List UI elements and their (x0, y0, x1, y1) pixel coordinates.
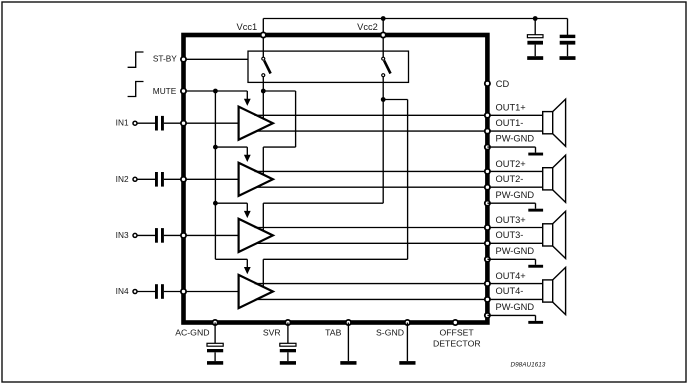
wire S2 output (382, 77, 384, 100)
speaker LS1 (543, 112, 553, 134)
junction S1 output node (261, 89, 266, 94)
wire OUT3+ (255, 227, 543, 229)
wire OUT1+ (255, 114, 543, 116)
terminal IN1 input (133, 121, 137, 125)
junction mute bus ch3 (213, 201, 218, 206)
IC block outline (184, 35, 488, 323)
svg-text:MUTE: MUTE (153, 86, 177, 96)
terminal IN4 input (133, 290, 137, 294)
terminal OUT1- (485, 129, 490, 134)
wire OUT3- (257, 242, 542, 244)
svg-text:OUT4+: OUT4+ (496, 271, 526, 281)
svg-text:D98AU1613: D98AU1613 (511, 361, 546, 368)
capacitor coupling C IN3 (155, 228, 158, 243)
ground PW-GND ch4 (528, 321, 543, 324)
wire OUT1- (257, 130, 542, 132)
mute arrow ch1 (246, 91, 248, 100)
wire IN2 to amplifier (164, 178, 239, 180)
ground TAB (340, 361, 356, 365)
wire Vcc1 to switch S1 (262, 35, 264, 57)
wire Vcc2 riser (382, 19, 384, 36)
ground AC-GND (207, 361, 223, 365)
switch S2 (384, 61, 390, 74)
terminal OUT2+ (485, 169, 490, 174)
control block box (248, 51, 409, 82)
op-amp A4 power amplifier channel 4 (239, 275, 273, 308)
terminal ST-BY (181, 57, 186, 62)
wire OUT2- (257, 186, 542, 188)
wire bias line ch3 (215, 202, 247, 204)
op-amp A1 power amplifier channel 1 (239, 107, 273, 140)
wire PW-GND ch1 (487, 146, 535, 148)
svg-text:TAB: TAB (325, 327, 341, 337)
terminal MUTE (181, 88, 186, 93)
terminal TAB (346, 320, 351, 325)
speaker LS4 (543, 280, 553, 302)
terminal OFFSET (453, 320, 458, 325)
op-amp A3 power amplifier channel 3 (239, 219, 273, 252)
wire IN3 to coupling cap (137, 234, 155, 236)
wire PW-GND ch2 (487, 202, 535, 204)
speaker LS2 (543, 168, 553, 190)
wire OUT2+ (255, 170, 543, 172)
wire IN2 to coupling cap (137, 178, 155, 180)
terminal OUT4- (485, 297, 490, 302)
wire C2 stub (567, 19, 569, 36)
capacitor coupling C IN1 (155, 116, 158, 131)
wire bias line ch2 (215, 146, 247, 148)
wire Vcc supply rail (263, 18, 567, 20)
svg-text:S-GND: S-GND (376, 327, 404, 337)
wire IN3 to amplifier (164, 234, 239, 236)
junction mute bus ch2 (213, 145, 218, 150)
wire standby feed ch4 (383, 99, 407, 101)
ground PW-GND ch3 (528, 265, 543, 268)
wire IN4 to coupling cap (137, 291, 155, 293)
ground PW-GND ch2 (528, 209, 543, 212)
speaker LS3 (543, 224, 553, 246)
terminal PW-GND ch3 (485, 257, 490, 262)
ground PW-GND ch1 (528, 153, 543, 156)
svg-text:IN3: IN3 (116, 230, 129, 240)
junction S2 output node (381, 97, 386, 102)
svg-text:OUT1-: OUT1- (496, 118, 524, 128)
svg-text:OUT3+: OUT3+ (496, 215, 526, 225)
svg-text:OUT2+: OUT2+ (496, 159, 526, 169)
svg-text:IN2: IN2 (116, 174, 129, 184)
svg-text:SVR: SVR (263, 327, 281, 337)
terminal OUT3+ (485, 225, 490, 230)
svg-text:OUT2-: OUT2- (496, 174, 524, 184)
capacitor C1 (electrolytic) (527, 35, 543, 38)
switch S1 (264, 61, 270, 74)
svg-text:OUT1+: OUT1+ (496, 103, 526, 113)
wire OUT4- (257, 298, 542, 300)
svg-text:IN1: IN1 (116, 118, 129, 128)
wire TAB to ground (347, 323, 349, 362)
terminal Vcc2 (381, 32, 386, 37)
svg-text:OFFSET: OFFSET (439, 328, 474, 338)
svg-text:PW-GND: PW-GND (496, 134, 535, 144)
svg-text:PW-GND: PW-GND (496, 190, 535, 200)
wire standby daisy ch1 to ch2 (263, 90, 295, 92)
ground S-GND (399, 361, 415, 365)
ST-BY edge symbol (128, 52, 144, 67)
terminal PW-GND ch1 (485, 145, 490, 150)
capacitor AC-GND (electrolytic) (214, 323, 216, 344)
terminal OUT3- (485, 241, 490, 246)
capacitor C2 (560, 35, 576, 38)
op-amp A2 power amplifier channel 2 (239, 163, 273, 196)
MUTE edge symbol (128, 82, 144, 97)
capacitor coupling C IN4 (155, 284, 158, 299)
terminal IN3 input (133, 233, 137, 237)
junction Vcc2 rail (381, 16, 386, 21)
terminal Vcc1 (261, 32, 266, 37)
ground C2 (560, 56, 576, 60)
wire standby drop ch1 (262, 91, 264, 119)
terminal SVR (285, 320, 290, 325)
wire C1 stub (534, 19, 536, 36)
wire bias line ch4 (215, 258, 247, 260)
terminal PW-GND ch2 (485, 201, 490, 206)
svg-text:Vcc2: Vcc2 (357, 22, 378, 32)
capacitor coupling C IN2 (155, 172, 158, 187)
mute arrow ch3 (246, 203, 248, 212)
svg-text:AC-GND: AC-GND (175, 327, 209, 337)
terminal IN4 (181, 289, 186, 294)
terminal S-GND (405, 320, 410, 325)
svg-text:DETECTOR: DETECTOR (433, 338, 481, 348)
svg-text:OUT4-: OUT4- (496, 286, 524, 296)
terminal OUT2- (485, 185, 490, 190)
svg-text:CD: CD (496, 79, 510, 89)
terminal OUT1+ (485, 113, 490, 118)
wire mute bus vertical (214, 91, 216, 259)
wire MUTE (186, 90, 247, 92)
terminal IN2 input (133, 177, 137, 181)
capacitor SVR (electrolytic) (287, 323, 289, 344)
wire Vcc2 to switch S2 (382, 35, 384, 57)
wire Vcc1 riser (262, 19, 264, 36)
svg-text:OUT3-: OUT3- (496, 230, 524, 240)
terminal IN1 (181, 121, 186, 126)
wire ST-BY (186, 58, 248, 60)
terminal PW-GND ch4 (485, 313, 490, 318)
junction mute bus ch1 (213, 89, 218, 94)
wire S1 output (262, 77, 264, 91)
ground SVR (280, 361, 296, 365)
wire standby drop ch4 (262, 259, 264, 287)
ground C1 (527, 56, 543, 60)
wire OUT4+ (255, 283, 543, 285)
svg-text:ST-BY: ST-BY (153, 54, 177, 64)
svg-text:PW-GND: PW-GND (496, 246, 535, 256)
wire IN4 to amplifier (164, 291, 239, 293)
mute arrow ch2 (246, 147, 248, 156)
terminal AC-GND (213, 320, 218, 325)
terminal IN2 (181, 177, 186, 182)
wire IN1 to coupling cap (137, 122, 155, 124)
wire S-GND to ground (406, 323, 408, 362)
wire PW-GND ch4 (487, 314, 535, 316)
svg-text:IN4: IN4 (116, 286, 129, 296)
terminal IN3 (181, 233, 186, 238)
wire standby drop ch3 (262, 203, 264, 231)
junction C1 rail (533, 16, 538, 21)
terminal CD (485, 81, 490, 86)
wire PW-GND ch3 (487, 258, 535, 260)
wire IN1 to amplifier (164, 122, 239, 124)
svg-text:PW-GND: PW-GND (496, 302, 535, 312)
mute arrow ch4 (246, 259, 248, 268)
wire standby drop ch2 (262, 147, 264, 175)
terminal OUT4+ (485, 281, 490, 286)
wire standby feed ch3 (382, 100, 384, 204)
svg-text:Vcc1: Vcc1 (237, 22, 258, 32)
